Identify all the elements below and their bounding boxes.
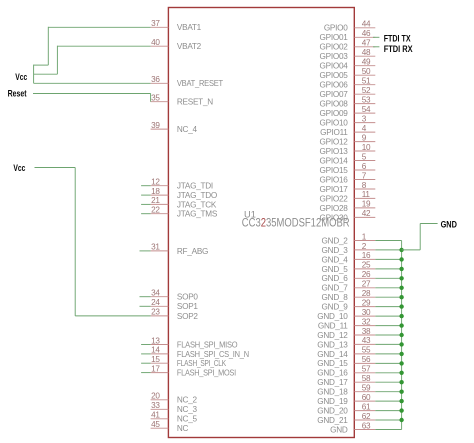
junction GND bus pin 57 bbox=[399, 371, 403, 375]
svg-text:51: 51 bbox=[362, 77, 371, 86]
pin 27 GND_7 bbox=[322, 280, 376, 293]
junction GND bus pin 56 bbox=[399, 361, 403, 365]
svg-text:18: 18 bbox=[151, 187, 160, 196]
pin 16 GND_4 bbox=[322, 251, 376, 264]
svg-text:55: 55 bbox=[362, 346, 371, 355]
pin 1 GND_2 bbox=[322, 232, 376, 245]
svg-text:GPIO14: GPIO14 bbox=[320, 156, 349, 165]
svg-text:NC_3: NC_3 bbox=[177, 405, 198, 414]
svg-text:21: 21 bbox=[151, 196, 160, 205]
net label Reset bbox=[8, 89, 27, 99]
pin 28 GND_8 bbox=[322, 289, 376, 302]
svg-text:2: 2 bbox=[362, 242, 367, 251]
svg-text:GND_4: GND_4 bbox=[322, 255, 349, 264]
svg-text:16: 16 bbox=[362, 251, 371, 260]
svg-text:GPIO16: GPIO16 bbox=[320, 175, 349, 184]
svg-text:27: 27 bbox=[362, 280, 371, 289]
svg-text:GPIO22: GPIO22 bbox=[320, 194, 349, 203]
svg-text:GPIO17: GPIO17 bbox=[320, 185, 349, 194]
pin 55 GND_14 bbox=[317, 346, 375, 359]
net label Vcc (SOP2) bbox=[13, 163, 25, 173]
pin 41 NC_5 bbox=[151, 411, 198, 424]
wire stub to pin 22 bbox=[141, 213, 151, 215]
svg-text:24: 24 bbox=[151, 298, 160, 307]
svg-text:GND_16: GND_16 bbox=[317, 369, 348, 378]
svg-text:GND: GND bbox=[330, 425, 348, 434]
svg-text:20: 20 bbox=[151, 392, 160, 401]
svg-text:JTAG_TMS: JTAG_TMS bbox=[177, 210, 218, 219]
wire stub to pin 12 bbox=[141, 185, 151, 187]
svg-text:35: 35 bbox=[151, 94, 160, 103]
pin 62 GND_21 bbox=[317, 412, 375, 425]
wire FTDI TX to pin 46 bbox=[373, 36, 379, 38]
svg-text:FLASH_SPI_MISO: FLASH_SPI_MISO bbox=[177, 340, 238, 349]
svg-text:SOP2: SOP2 bbox=[177, 312, 199, 321]
svg-text:GND_17: GND_17 bbox=[317, 378, 348, 387]
wire stub to pin 31 bbox=[140, 250, 151, 252]
svg-text:32: 32 bbox=[362, 317, 371, 326]
svg-text:48: 48 bbox=[362, 48, 371, 57]
svg-text:GPIO04: GPIO04 bbox=[320, 62, 349, 71]
svg-text:63: 63 bbox=[362, 421, 371, 430]
net label Vcc (top) bbox=[15, 72, 27, 82]
svg-text:60: 60 bbox=[362, 393, 371, 402]
wire GND pin 26 to bus bbox=[375, 277, 401, 279]
svg-text:10: 10 bbox=[362, 143, 371, 152]
svg-text:34: 34 bbox=[151, 289, 160, 298]
svg-text:52: 52 bbox=[362, 86, 371, 95]
svg-text:61: 61 bbox=[362, 402, 371, 411]
wire stub to pin 17 bbox=[141, 372, 151, 374]
svg-text:RESET_N: RESET_N bbox=[177, 98, 213, 107]
pin 58 GND_17 bbox=[317, 374, 375, 387]
svg-text:40: 40 bbox=[151, 38, 160, 47]
wire GND bus vertical bbox=[401, 241, 403, 430]
svg-text:31: 31 bbox=[151, 243, 160, 252]
svg-text:GND_8: GND_8 bbox=[322, 293, 349, 302]
pin 14 FLASH_SPI_CS_IN_N bbox=[151, 346, 250, 359]
junction GND bus pin 27 bbox=[399, 286, 403, 290]
pin 11 GPIO22 bbox=[320, 190, 376, 203]
wire GND pin 59 to bus bbox=[375, 391, 401, 393]
junction GND bus pin 59 bbox=[399, 390, 403, 394]
svg-text:GPIO10: GPIO10 bbox=[320, 119, 349, 128]
svg-text:Vcc: Vcc bbox=[13, 163, 25, 173]
IC U1 body bbox=[168, 8, 354, 438]
svg-text:GPIO11: GPIO11 bbox=[320, 128, 348, 137]
pin 49 GPIO04 bbox=[320, 58, 376, 71]
pin 53 GPIO08 bbox=[320, 95, 376, 108]
svg-text:GND_5: GND_5 bbox=[322, 265, 349, 274]
pin 24 SOP1 bbox=[151, 298, 199, 311]
junction GND bus pin 43 bbox=[399, 342, 403, 346]
pin 4 GPIO11 bbox=[320, 124, 375, 137]
svg-text:GPIO28: GPIO28 bbox=[320, 204, 349, 213]
pin 7 GPIO16 bbox=[320, 171, 376, 184]
svg-text:38: 38 bbox=[362, 327, 371, 336]
wire Vcc net to VBAT1 bbox=[48, 27, 150, 65]
wire stub to pin 14 bbox=[141, 353, 151, 355]
svg-text:Vcc: Vcc bbox=[15, 72, 27, 82]
pin 56 GND_15 bbox=[317, 355, 375, 368]
pin 33 NC_3 bbox=[151, 401, 198, 414]
pin 51 GPIO06 bbox=[320, 77, 376, 90]
wire GND net to label bbox=[402, 224, 438, 250]
pin 22 JTAG_TMS bbox=[151, 206, 218, 219]
pin 31 RF_ABG bbox=[151, 243, 209, 256]
svg-text:3: 3 bbox=[362, 114, 367, 123]
pin 40 VBAT2 bbox=[151, 38, 202, 51]
wire GND pin 55 to bus bbox=[375, 353, 401, 355]
svg-text:GND_3: GND_3 bbox=[322, 246, 349, 255]
wire GND pin 60 to bus bbox=[375, 400, 401, 402]
wire GND pin 16 to bus bbox=[375, 258, 401, 260]
svg-text:GND_20: GND_20 bbox=[317, 407, 348, 416]
pin 63 GND bbox=[330, 421, 375, 434]
net label FTDI TX bbox=[384, 33, 411, 43]
pin 47 GPIO02 bbox=[320, 39, 376, 52]
pin 48 GPIO03 bbox=[320, 48, 376, 61]
wire GND pin 38 to bus bbox=[375, 334, 401, 336]
svg-text:17: 17 bbox=[151, 364, 160, 373]
svg-text:GND_9: GND_9 bbox=[322, 303, 349, 312]
svg-text:GND_12: GND_12 bbox=[317, 331, 348, 340]
svg-text:FTDI TX: FTDI TX bbox=[384, 33, 411, 43]
svg-text:59: 59 bbox=[362, 384, 371, 393]
svg-text:VBAT1: VBAT1 bbox=[177, 23, 202, 32]
svg-text:FLASH_SPI_CLK: FLASH_SPI_CLK bbox=[177, 359, 227, 368]
pin 32 GND_11 bbox=[318, 317, 375, 330]
wire GND pin 29 to bus bbox=[375, 306, 401, 308]
svg-text:GPIO01: GPIO01 bbox=[320, 33, 349, 42]
pin 6 GPIO15 bbox=[320, 162, 376, 175]
svg-text:54: 54 bbox=[362, 105, 371, 114]
wire GND pin 30 to bus bbox=[375, 315, 401, 317]
svg-text:8: 8 bbox=[362, 181, 367, 190]
wire FTDI RX to pin 47 bbox=[373, 46, 379, 48]
pin 9 GPIO12 bbox=[320, 133, 376, 146]
wire Reset net bbox=[33, 94, 151, 102]
svg-text:NC_5: NC_5 bbox=[177, 415, 198, 424]
pin 21 JTAG_TCK bbox=[151, 196, 217, 209]
svg-text:GPIO07: GPIO07 bbox=[320, 90, 349, 99]
wire GND pin 43 to bus bbox=[375, 343, 401, 345]
pin 42 GPIO30 bbox=[320, 209, 376, 222]
junction GND bus pin 38 bbox=[399, 333, 403, 337]
pin 18 JTAG_TDO bbox=[151, 187, 217, 200]
svg-text:GPIO09: GPIO09 bbox=[320, 109, 349, 118]
pin 57 GND_16 bbox=[317, 365, 375, 378]
svg-text:44: 44 bbox=[362, 20, 371, 29]
junction GND bus pin 28 bbox=[399, 295, 403, 299]
pin 37 VBAT1 bbox=[151, 19, 202, 32]
pin 44 GPIO0 bbox=[324, 20, 375, 33]
svg-text:GND_21: GND_21 bbox=[317, 416, 348, 425]
svg-text:GND_19: GND_19 bbox=[317, 397, 348, 406]
pin 29 GND_9 bbox=[322, 298, 376, 311]
svg-text:19: 19 bbox=[362, 200, 371, 209]
svg-text:GND_2: GND_2 bbox=[322, 236, 349, 245]
pin 38 GND_12 bbox=[317, 327, 375, 340]
svg-text:GND_10: GND_10 bbox=[317, 312, 348, 321]
svg-text:SOP1: SOP1 bbox=[177, 302, 199, 311]
svg-text:NC_4: NC_4 bbox=[177, 125, 198, 134]
svg-text:SOP0: SOP0 bbox=[177, 293, 199, 302]
wire GND pin 28 to bus bbox=[375, 296, 401, 298]
net label GND bbox=[441, 220, 458, 230]
svg-text:46: 46 bbox=[362, 29, 371, 38]
designator U1 bbox=[244, 209, 256, 219]
svg-text:NC: NC bbox=[177, 424, 189, 433]
svg-text:15: 15 bbox=[151, 355, 160, 364]
svg-text:7: 7 bbox=[362, 171, 367, 180]
junction GND bus pin 30 bbox=[399, 314, 403, 318]
pin 15 FLASH_SPI_CLK bbox=[151, 355, 227, 368]
svg-text:62: 62 bbox=[362, 412, 371, 421]
svg-text:22: 22 bbox=[151, 206, 160, 215]
pin 13 FLASH_SPI_MISO bbox=[151, 336, 238, 349]
svg-text:GPIO08: GPIO08 bbox=[320, 100, 349, 109]
wire GND pin 25 to bus bbox=[375, 268, 401, 270]
svg-text:VBAT_RESET: VBAT_RESET bbox=[177, 79, 223, 88]
svg-text:57: 57 bbox=[362, 365, 371, 374]
wire GND pin 1 to bus bbox=[375, 240, 401, 242]
wire stub to pin 24 bbox=[140, 305, 151, 307]
pin 3 GPIO10 bbox=[320, 114, 376, 127]
svg-text:GPIO03: GPIO03 bbox=[320, 52, 349, 61]
svg-text:53: 53 bbox=[362, 95, 371, 104]
svg-text:4: 4 bbox=[362, 124, 367, 133]
svg-text:JTAG_TDI: JTAG_TDI bbox=[177, 182, 213, 191]
svg-text:1: 1 bbox=[362, 232, 367, 241]
pin 60 GND_19 bbox=[317, 393, 375, 406]
svg-text:RF_ABG: RF_ABG bbox=[177, 247, 208, 256]
pin 20 NC_2 bbox=[151, 392, 198, 405]
wire GND pin 62 to bus bbox=[375, 419, 401, 421]
pin 61 GND_20 bbox=[317, 402, 375, 415]
svg-text:VBAT2: VBAT2 bbox=[177, 42, 202, 51]
svg-text:GND_6: GND_6 bbox=[322, 274, 349, 283]
pin 12 JTAG_TDI bbox=[151, 178, 213, 191]
svg-text:FTDI RX: FTDI RX bbox=[384, 44, 413, 54]
svg-text:49: 49 bbox=[362, 58, 371, 67]
junction GND bus pin 16 bbox=[399, 257, 403, 261]
svg-text:41: 41 bbox=[151, 411, 160, 420]
wire stub to pin 18 bbox=[141, 194, 151, 196]
svg-text:FLASH_SPI_MOSI: FLASH_SPI_MOSI bbox=[177, 369, 236, 378]
pin 46 GPIO01 bbox=[320, 29, 376, 42]
svg-text:6: 6 bbox=[362, 162, 367, 171]
pin 25 GND_5 bbox=[322, 261, 376, 274]
junction GND bus pin 29 bbox=[399, 304, 403, 308]
pin 23 SOP2 bbox=[151, 308, 199, 321]
wire stub to pin 15 bbox=[141, 362, 151, 364]
junction GND bus pin 2 bbox=[399, 248, 403, 252]
svg-text:GND_15: GND_15 bbox=[317, 359, 348, 368]
pin 34 SOP0 bbox=[151, 289, 199, 302]
pin 39 NC_4 bbox=[151, 121, 198, 134]
pin 5 GPIO14 bbox=[320, 152, 376, 165]
wire stub to pin 34 bbox=[140, 296, 151, 298]
pin 52 GPIO07 bbox=[320, 86, 376, 99]
pin 50 GPIO05 bbox=[320, 67, 376, 80]
svg-text:26: 26 bbox=[362, 270, 371, 279]
wire Vcc net to SOP2 bbox=[35, 168, 151, 316]
svg-text:GPIO0: GPIO0 bbox=[324, 24, 348, 33]
svg-text:GND: GND bbox=[441, 220, 458, 230]
svg-text:GPIO12: GPIO12 bbox=[320, 138, 349, 147]
svg-text:25: 25 bbox=[362, 261, 371, 270]
svg-text:GPIO13: GPIO13 bbox=[320, 147, 349, 156]
svg-text:11: 11 bbox=[362, 190, 371, 199]
junction GND bus pin 61 bbox=[399, 408, 403, 412]
svg-text:56: 56 bbox=[362, 355, 371, 364]
svg-text:50: 50 bbox=[362, 67, 371, 76]
wire GND pin 2 to bus bbox=[375, 249, 401, 251]
wire GND pin 32 to bus bbox=[375, 325, 401, 327]
pin 10 GPIO13 bbox=[320, 143, 376, 156]
wire GND pin 63 to bus bbox=[375, 429, 401, 431]
svg-text:39: 39 bbox=[151, 121, 160, 130]
svg-text:NC_2: NC_2 bbox=[177, 396, 198, 405]
pin 30 GND_10 bbox=[317, 308, 375, 321]
svg-text:47: 47 bbox=[362, 39, 371, 48]
svg-text:FLASH_SPI_CS_IN_N: FLASH_SPI_CS_IN_N bbox=[177, 350, 249, 359]
wire GND pin 58 to bus bbox=[375, 381, 401, 383]
junction GND bus pin 26 bbox=[399, 276, 403, 280]
svg-text:GPIO15: GPIO15 bbox=[320, 166, 349, 175]
pin 2 GND_3 bbox=[322, 242, 376, 255]
wire GND pin 57 to bus bbox=[375, 372, 401, 374]
pin 54 GPIO09 bbox=[320, 105, 376, 118]
svg-text:12: 12 bbox=[151, 178, 160, 187]
svg-text:5: 5 bbox=[362, 152, 367, 161]
svg-text:GND_18: GND_18 bbox=[317, 388, 348, 397]
svg-text:GND_11: GND_11 bbox=[318, 321, 348, 330]
pin 36 VBAT_RESET bbox=[151, 75, 224, 88]
wire stub to pin 13 bbox=[141, 344, 151, 346]
net label FTDI RX bbox=[384, 44, 413, 54]
wire Vcc net to VBAT2 bbox=[57, 46, 150, 74]
svg-text:23: 23 bbox=[151, 308, 160, 317]
svg-text:CC3235MODSF12MOBR: CC3235MODSF12MOBR bbox=[242, 215, 350, 229]
pin 8 GPIO17 bbox=[320, 181, 376, 194]
value CC3235MODSF12MOBR bbox=[242, 215, 350, 229]
pin 59 GND_18 bbox=[317, 384, 375, 397]
svg-text:JTAG_TDO: JTAG_TDO bbox=[177, 191, 217, 200]
svg-text:GPIO06: GPIO06 bbox=[320, 81, 349, 90]
wire Vcc net trunk bbox=[34, 65, 151, 84]
svg-text:29: 29 bbox=[362, 298, 371, 307]
pin 43 GND_13 bbox=[317, 336, 375, 349]
svg-text:42: 42 bbox=[362, 209, 371, 218]
svg-text:37: 37 bbox=[151, 19, 160, 28]
svg-text:43: 43 bbox=[362, 336, 371, 345]
wire GND pin 27 to bus bbox=[375, 287, 401, 289]
pin 19 GPIO28 bbox=[320, 200, 376, 213]
junction GND bus pin 55 bbox=[399, 352, 403, 356]
junction GND bus pin 60 bbox=[399, 399, 403, 403]
junction GND bus pin 62 bbox=[399, 418, 403, 422]
wire GND pin 61 to bus bbox=[375, 410, 401, 412]
svg-text:GND_13: GND_13 bbox=[317, 340, 348, 349]
svg-text:45: 45 bbox=[151, 420, 160, 429]
pin 35 RESET_N bbox=[151, 94, 214, 107]
svg-text:13: 13 bbox=[151, 336, 160, 345]
junction GND bus pin 32 bbox=[399, 323, 403, 327]
svg-text:28: 28 bbox=[362, 289, 371, 298]
svg-text:GPIO02: GPIO02 bbox=[320, 43, 349, 52]
svg-text:GPIO05: GPIO05 bbox=[320, 71, 349, 80]
svg-text:58: 58 bbox=[362, 374, 371, 383]
svg-text:36: 36 bbox=[151, 75, 160, 84]
junction GND bus pin 25 bbox=[399, 267, 403, 271]
svg-text:14: 14 bbox=[151, 346, 160, 355]
svg-text:9: 9 bbox=[362, 133, 367, 142]
wire stub to pin 21 bbox=[141, 203, 151, 205]
junction GND bus pin 58 bbox=[399, 380, 403, 384]
svg-text:33: 33 bbox=[151, 401, 160, 410]
pin 17 FLASH_SPI_MOSI bbox=[151, 364, 236, 377]
svg-text:30: 30 bbox=[362, 308, 371, 317]
svg-text:GND_14: GND_14 bbox=[317, 350, 348, 359]
svg-text:JTAG_TCK: JTAG_TCK bbox=[177, 200, 217, 209]
svg-text:GND_7: GND_7 bbox=[322, 284, 349, 293]
pin 45 NC bbox=[151, 420, 189, 433]
pin 26 GND_6 bbox=[322, 270, 376, 283]
wire GND pin 56 to bus bbox=[375, 362, 401, 364]
svg-text:Reset: Reset bbox=[8, 89, 27, 99]
